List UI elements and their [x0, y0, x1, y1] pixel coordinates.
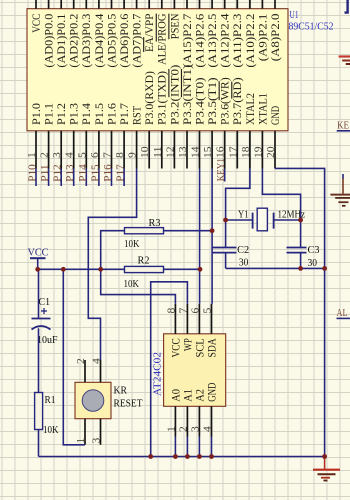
- U1 top pin stub ALE/PROG: [161, 0, 163, 9]
- C1 polarity plus: [41, 308, 47, 314]
- svg-text:P1.2: P1.2: [56, 103, 68, 125]
- svg-text:4: 4: [92, 357, 103, 364]
- svg-text:C2: C2: [237, 244, 249, 256]
- svg-text:3: 3: [52, 152, 63, 158]
- U1 top pin stub PSEN: [173, 0, 175, 9]
- svg-text:(A14)P2.6: (A14)P2.6: [194, 13, 206, 67]
- svg-text:30: 30: [239, 257, 249, 269]
- wire net P10: [35, 169, 37, 187]
- U1 bottom pin 7 stub: [111, 131, 113, 169]
- svg-text:R1: R1: [45, 394, 56, 406]
- svg-text:P14: P14: [77, 164, 89, 182]
- svg-text:XTAL1: XTAL1: [257, 93, 269, 125]
- EEPROM top pin 8 stub: [174, 304, 176, 334]
- wire C1 to R1: [38, 328, 40, 392]
- junction at 101,269: [98, 267, 103, 272]
- U1 bottom pin 17 stub: [236, 131, 238, 169]
- U1 bottom pin 8 stub: [123, 131, 125, 169]
- wire XTAL2 pin 18 to crystal left: [226, 169, 250, 248]
- svg-text:89C51/C52: 89C51/C52: [289, 22, 334, 33]
- svg-text:P1.0: P1.0: [31, 103, 43, 125]
- capacitor C3: [287, 248, 307, 253]
- svg-text:P15: P15: [89, 164, 101, 182]
- svg-text:5: 5: [203, 308, 214, 314]
- svg-text:4: 4: [65, 151, 76, 158]
- EEPROM bottom pin 2 stub: [186, 406, 188, 436]
- junction at 325,268: [322, 266, 327, 271]
- wire WP pin 7 to ground rail: [151, 282, 188, 457]
- svg-text:10K: 10K: [124, 238, 140, 250]
- wire C3 bottom: [300, 253, 302, 269]
- svg-text:2: 2: [76, 358, 87, 364]
- svg-text:15: 15: [203, 146, 214, 158]
- U1 top pin stub (AD7)P0.7: [136, 0, 138, 9]
- wire bottom ground rail: [39, 456, 325, 458]
- svg-text:P12: P12: [52, 164, 64, 182]
- wire net P16: [111, 169, 113, 187]
- svg-text:2: 2: [178, 426, 189, 432]
- svg-text:ALE/PROG: ALE/PROG: [157, 14, 169, 65]
- wire KE stub: [337, 130, 350, 132]
- svg-text:(A15)P2.7: (A15)P2.7: [182, 13, 194, 67]
- svg-text:(AD1)P0.1: (AD1)P0.1: [56, 13, 68, 67]
- svg-text:12: 12: [165, 146, 176, 158]
- svg-text:20: 20: [266, 146, 277, 158]
- U1 top pin stub (A14)P2.6: [199, 0, 201, 9]
- svg-text:13: 13: [178, 146, 189, 158]
- svg-text:19: 19: [253, 146, 264, 158]
- svg-text:P3.4(T0): P3.4(T0): [194, 77, 206, 125]
- wire GND pin 20 to ground rail: [275, 168, 325, 456]
- U1 bottom pin 10 stub: [148, 131, 150, 169]
- svg-text:11: 11: [153, 146, 164, 158]
- resistor R3: [125, 228, 164, 234]
- wire C2 bottom: [225, 253, 227, 269]
- svg-text:P1.4: P1.4: [81, 103, 93, 125]
- capacitor C1: [32, 319, 51, 330]
- wire net KEY1 at pin 16: [224, 169, 226, 182]
- svg-text:R2: R2: [138, 255, 150, 267]
- U1 bottom pin 6 stub: [98, 131, 100, 169]
- svg-text:P3.7(RD): P3.7(RD): [232, 77, 244, 125]
- svg-text:P3.2(INT0): P3.2(INT0): [169, 64, 181, 125]
- U1 bottom pin 9 stub: [136, 131, 138, 169]
- resistor R1: [35, 393, 43, 430]
- U1 bottom pin 14 stub: [199, 131, 201, 169]
- svg-text:Y1: Y1: [238, 209, 249, 221]
- svg-text:4: 4: [203, 425, 214, 432]
- U1 top pin stub (A15)P2.7: [186, 0, 188, 9]
- wire button pin 1 to VCC rail: [63, 269, 85, 445]
- wire EEPROM pin 4 to ground rail: [211, 437, 213, 457]
- power symbol VCC: [30, 258, 46, 269]
- svg-text:KEY1: KEY1: [215, 158, 227, 181]
- EEPROM AT24C02 body: [164, 334, 226, 407]
- svg-text:GND: GND: [270, 106, 282, 125]
- svg-text:14: 14: [191, 146, 202, 158]
- U1 top pin stub (AD5)P0.5: [111, 0, 113, 9]
- svg-text:P1.3: P1.3: [69, 103, 81, 125]
- U1 top pin stub (AD3)P0.3: [85, 0, 87, 9]
- svg-text:P1.5: P1.5: [94, 103, 106, 125]
- U1 top pin stub EA/VPP: [148, 0, 150, 9]
- EEPROM bottom pin 3 stub: [198, 406, 200, 436]
- U1 top pin stub (AD1)P0.1: [60, 0, 62, 9]
- U1 top pin stub (AD0)P0.0: [48, 0, 50, 9]
- U1 top pin stub (A11)P2.3: [236, 0, 238, 9]
- U1 top pin stub (AD2)P0.2: [73, 0, 75, 9]
- U1 bottom pin 11 stub: [161, 131, 163, 169]
- U1 top pin stub VCC: [35, 0, 37, 9]
- EEPROM bottom pin 4 stub: [211, 406, 213, 436]
- svg-text:P11: P11: [39, 164, 51, 182]
- wire VCC to EEPROM pin 8: [101, 269, 176, 304]
- wire EEPROM pin 1 to ground rail: [174, 437, 176, 457]
- wire R3 left to VCC rail: [101, 231, 125, 270]
- junction at 38,269: [35, 267, 40, 272]
- svg-text:P1.6: P1.6: [106, 103, 118, 125]
- svg-text:R3: R3: [149, 217, 161, 229]
- button pin 2 stub: [84, 360, 86, 382]
- svg-text:1: 1: [76, 438, 87, 444]
- junction at 199,456: [197, 454, 202, 459]
- wire EEPROM pin 2 to ground rail: [186, 437, 188, 457]
- svg-text:2: 2: [40, 152, 51, 158]
- svg-text:7: 7: [103, 152, 114, 158]
- ground symbol bottom right: [313, 457, 340, 481]
- wire XTAL1 pin 19 to crystal right: [262, 169, 300, 248]
- U1 top pin stub (A10)P2.2: [249, 0, 251, 9]
- wire EEPROM pin 3 to ground rail: [198, 437, 200, 457]
- wire SCL pin 14 to EEPROM pin 6: [199, 169, 201, 304]
- U1 bottom pin 2 stub: [48, 131, 50, 169]
- svg-text:8: 8: [166, 308, 177, 314]
- U1 bottom pin 18 stub: [249, 131, 251, 169]
- resistor R2: [125, 266, 164, 272]
- svg-text:(A11)P2.3: (A11)P2.3: [232, 13, 244, 67]
- microcontroller U1 body: [27, 9, 288, 131]
- svg-text:1: 1: [166, 426, 177, 432]
- svg-text:10uF: 10uF: [37, 334, 58, 346]
- junction at 226,220: [223, 218, 228, 223]
- svg-text:GND: GND: [206, 383, 218, 402]
- svg-text:(A8)P2.0: (A8)P2.0: [270, 13, 282, 61]
- junction at 301,268: [298, 266, 303, 271]
- svg-text:6: 6: [190, 308, 201, 314]
- U1 bottom pin 13 stub: [186, 131, 188, 169]
- wire capacitor ground rail: [226, 267, 325, 269]
- svg-text:VCC: VCC: [28, 248, 49, 259]
- svg-text:(AD0)P0.0: (AD0)P0.0: [44, 13, 56, 67]
- wire VCC rail: [38, 268, 200, 270]
- svg-text:P1.7: P1.7: [119, 103, 131, 125]
- wire net P11: [48, 169, 50, 187]
- U1 top pin stub (AD6)P0.6: [123, 0, 125, 9]
- svg-text:AT24C02: AT24C02: [153, 352, 164, 396]
- U1 top pin stub (A8)P2.0: [274, 0, 276, 9]
- wire net P17: [123, 169, 125, 187]
- wire AL stub: [337, 317, 350, 319]
- wire Y1 left lead: [226, 219, 253, 221]
- svg-text:P10: P10: [27, 164, 39, 182]
- svg-text:P16: P16: [102, 164, 114, 182]
- wire Y1 right lead: [274, 219, 301, 221]
- U1 bottom pin 3 stub: [60, 131, 62, 169]
- U1 top pin stub (A13)P2.5: [211, 0, 213, 9]
- svg-text:3: 3: [190, 426, 201, 432]
- svg-text:WP: WP: [182, 338, 194, 351]
- button pin 4 stub: [100, 360, 102, 382]
- junction at 151,456: [148, 454, 153, 459]
- push button KR body: [75, 382, 111, 418]
- junction at 212,456: [209, 454, 214, 459]
- junction at 301,220: [298, 218, 303, 223]
- svg-text:6: 6: [90, 152, 101, 158]
- svg-text:P13: P13: [64, 164, 76, 182]
- wire net P15: [98, 169, 100, 187]
- svg-text:9: 9: [128, 152, 139, 158]
- U1 bottom pin 4 stub: [73, 131, 75, 169]
- svg-text:P3.0(RXD): P3.0(RXD): [144, 71, 156, 125]
- EEPROM top pin 7 stub: [186, 304, 188, 334]
- button pin 3 stub: [100, 419, 102, 445]
- svg-text:30: 30: [308, 257, 318, 269]
- svg-text:P3.6(WR): P3.6(WR): [220, 77, 232, 125]
- U1 bottom pin 19 stub: [261, 131, 263, 169]
- U1 bottom pin 12 stub: [173, 131, 175, 169]
- capacitor C2: [213, 248, 237, 253]
- svg-text:(AD7)P0.7: (AD7)P0.7: [132, 13, 144, 67]
- svg-text:C1: C1: [39, 296, 51, 308]
- button pin 1 stub: [84, 419, 86, 445]
- ground symbol top right: [339, 57, 350, 65]
- U1 top pin stub (AD4)P0.4: [98, 0, 100, 9]
- junction at 175,456: [173, 454, 178, 459]
- svg-text:A0: A0: [170, 389, 182, 402]
- wire net P14: [85, 169, 87, 187]
- wire R3 right to SDA: [164, 230, 213, 232]
- svg-text:(A9)P2.1: (A9)P2.1: [257, 13, 269, 61]
- svg-text:10K: 10K: [124, 278, 140, 290]
- svg-text:3: 3: [92, 438, 103, 444]
- svg-text:PSEN: PSEN: [169, 13, 181, 39]
- svg-text:VCC: VCC: [170, 338, 182, 357]
- EEPROM top pin 6 stub: [198, 304, 200, 334]
- U1 bottom pin 16 stub: [224, 131, 226, 169]
- svg-text:A2: A2: [194, 389, 206, 402]
- svg-text:(AD5)P0.5: (AD5)P0.5: [106, 13, 118, 67]
- svg-text:10: 10: [140, 146, 151, 158]
- svg-text:SCL: SCL: [194, 338, 206, 357]
- wire RST pin 9 to button pin 4: [88, 169, 136, 361]
- svg-text:16: 16: [216, 146, 227, 158]
- svg-text:(A12)P2.4: (A12)P2.4: [220, 13, 232, 67]
- svg-text:7: 7: [178, 308, 189, 314]
- svg-text:U1: U1: [290, 10, 299, 21]
- junction at 63,269: [61, 267, 66, 272]
- U1 bottom pin 15 stub: [211, 131, 213, 169]
- svg-text:P3.5(T1): P3.5(T1): [207, 77, 219, 125]
- svg-text:17: 17: [228, 146, 239, 158]
- U1 bottom pin 5 stub: [85, 131, 87, 169]
- svg-text:KR: KR: [114, 385, 128, 397]
- wire net P13: [73, 169, 75, 187]
- svg-text:AL: AL: [337, 308, 348, 319]
- svg-text:(AD4)P0.4: (AD4)P0.4: [94, 13, 106, 67]
- svg-text:1: 1: [27, 152, 38, 158]
- svg-text:18: 18: [241, 146, 252, 158]
- svg-text:P17: P17: [115, 164, 127, 182]
- svg-text:5: 5: [77, 152, 88, 158]
- EEPROM bottom pin 1 stub: [174, 406, 176, 436]
- U1 bottom pin 1 stub: [35, 131, 37, 169]
- svg-text:C3: C3: [308, 244, 320, 256]
- svg-text:A1: A1: [182, 389, 194, 402]
- wire net P12: [60, 169, 62, 187]
- svg-text:XTAL2: XTAL2: [245, 93, 257, 125]
- svg-text:P3.1(TXD): P3.1(TXD): [157, 71, 169, 125]
- svg-text:10K: 10K: [43, 424, 59, 436]
- wire VCC rail to C1: [38, 269, 40, 318]
- U1 top pin stub (A12)P2.4: [224, 0, 226, 9]
- EEPROM top pin 5 stub: [211, 304, 213, 334]
- svg-text:EA/VPP: EA/VPP: [144, 14, 156, 52]
- junction at 325,456: [322, 454, 327, 459]
- svg-text:KE: KE: [337, 121, 349, 132]
- svg-text:VCC: VCC: [31, 13, 43, 32]
- svg-text:RST: RST: [132, 106, 144, 125]
- U1 bottom pin 20 stub: [274, 131, 276, 169]
- wire top right edge stub: [345, 0, 348, 13]
- svg-text:(A10)P2.2: (A10)P2.2: [245, 13, 257, 67]
- junction at 200,269: [198, 267, 203, 272]
- crystal Y1: [253, 208, 274, 231]
- wire SDA pin 15 to EEPROM pin 5: [211, 169, 213, 304]
- svg-text:SDA: SDA: [206, 338, 218, 358]
- svg-text:P1.1: P1.1: [44, 103, 56, 125]
- svg-text:(AD3)P0.3: (AD3)P0.3: [81, 13, 93, 67]
- junction at 212,231: [210, 228, 215, 233]
- U1 top pin stub (A9)P2.1: [261, 0, 263, 9]
- svg-text:P3.3(INT1): P3.3(INT1): [182, 64, 194, 125]
- wire R1 to ground rail: [38, 430, 40, 457]
- junction at 187,456: [185, 454, 190, 459]
- svg-text:(A13)P2.5: (A13)P2.5: [207, 13, 219, 67]
- svg-text:(AD2)P0.2: (AD2)P0.2: [69, 13, 81, 67]
- ground symbol mid right: [330, 174, 350, 206]
- svg-text:(AD6)P0.6: (AD6)P0.6: [119, 13, 131, 67]
- svg-text:8: 8: [115, 152, 126, 158]
- svg-text:RESET: RESET: [114, 398, 143, 410]
